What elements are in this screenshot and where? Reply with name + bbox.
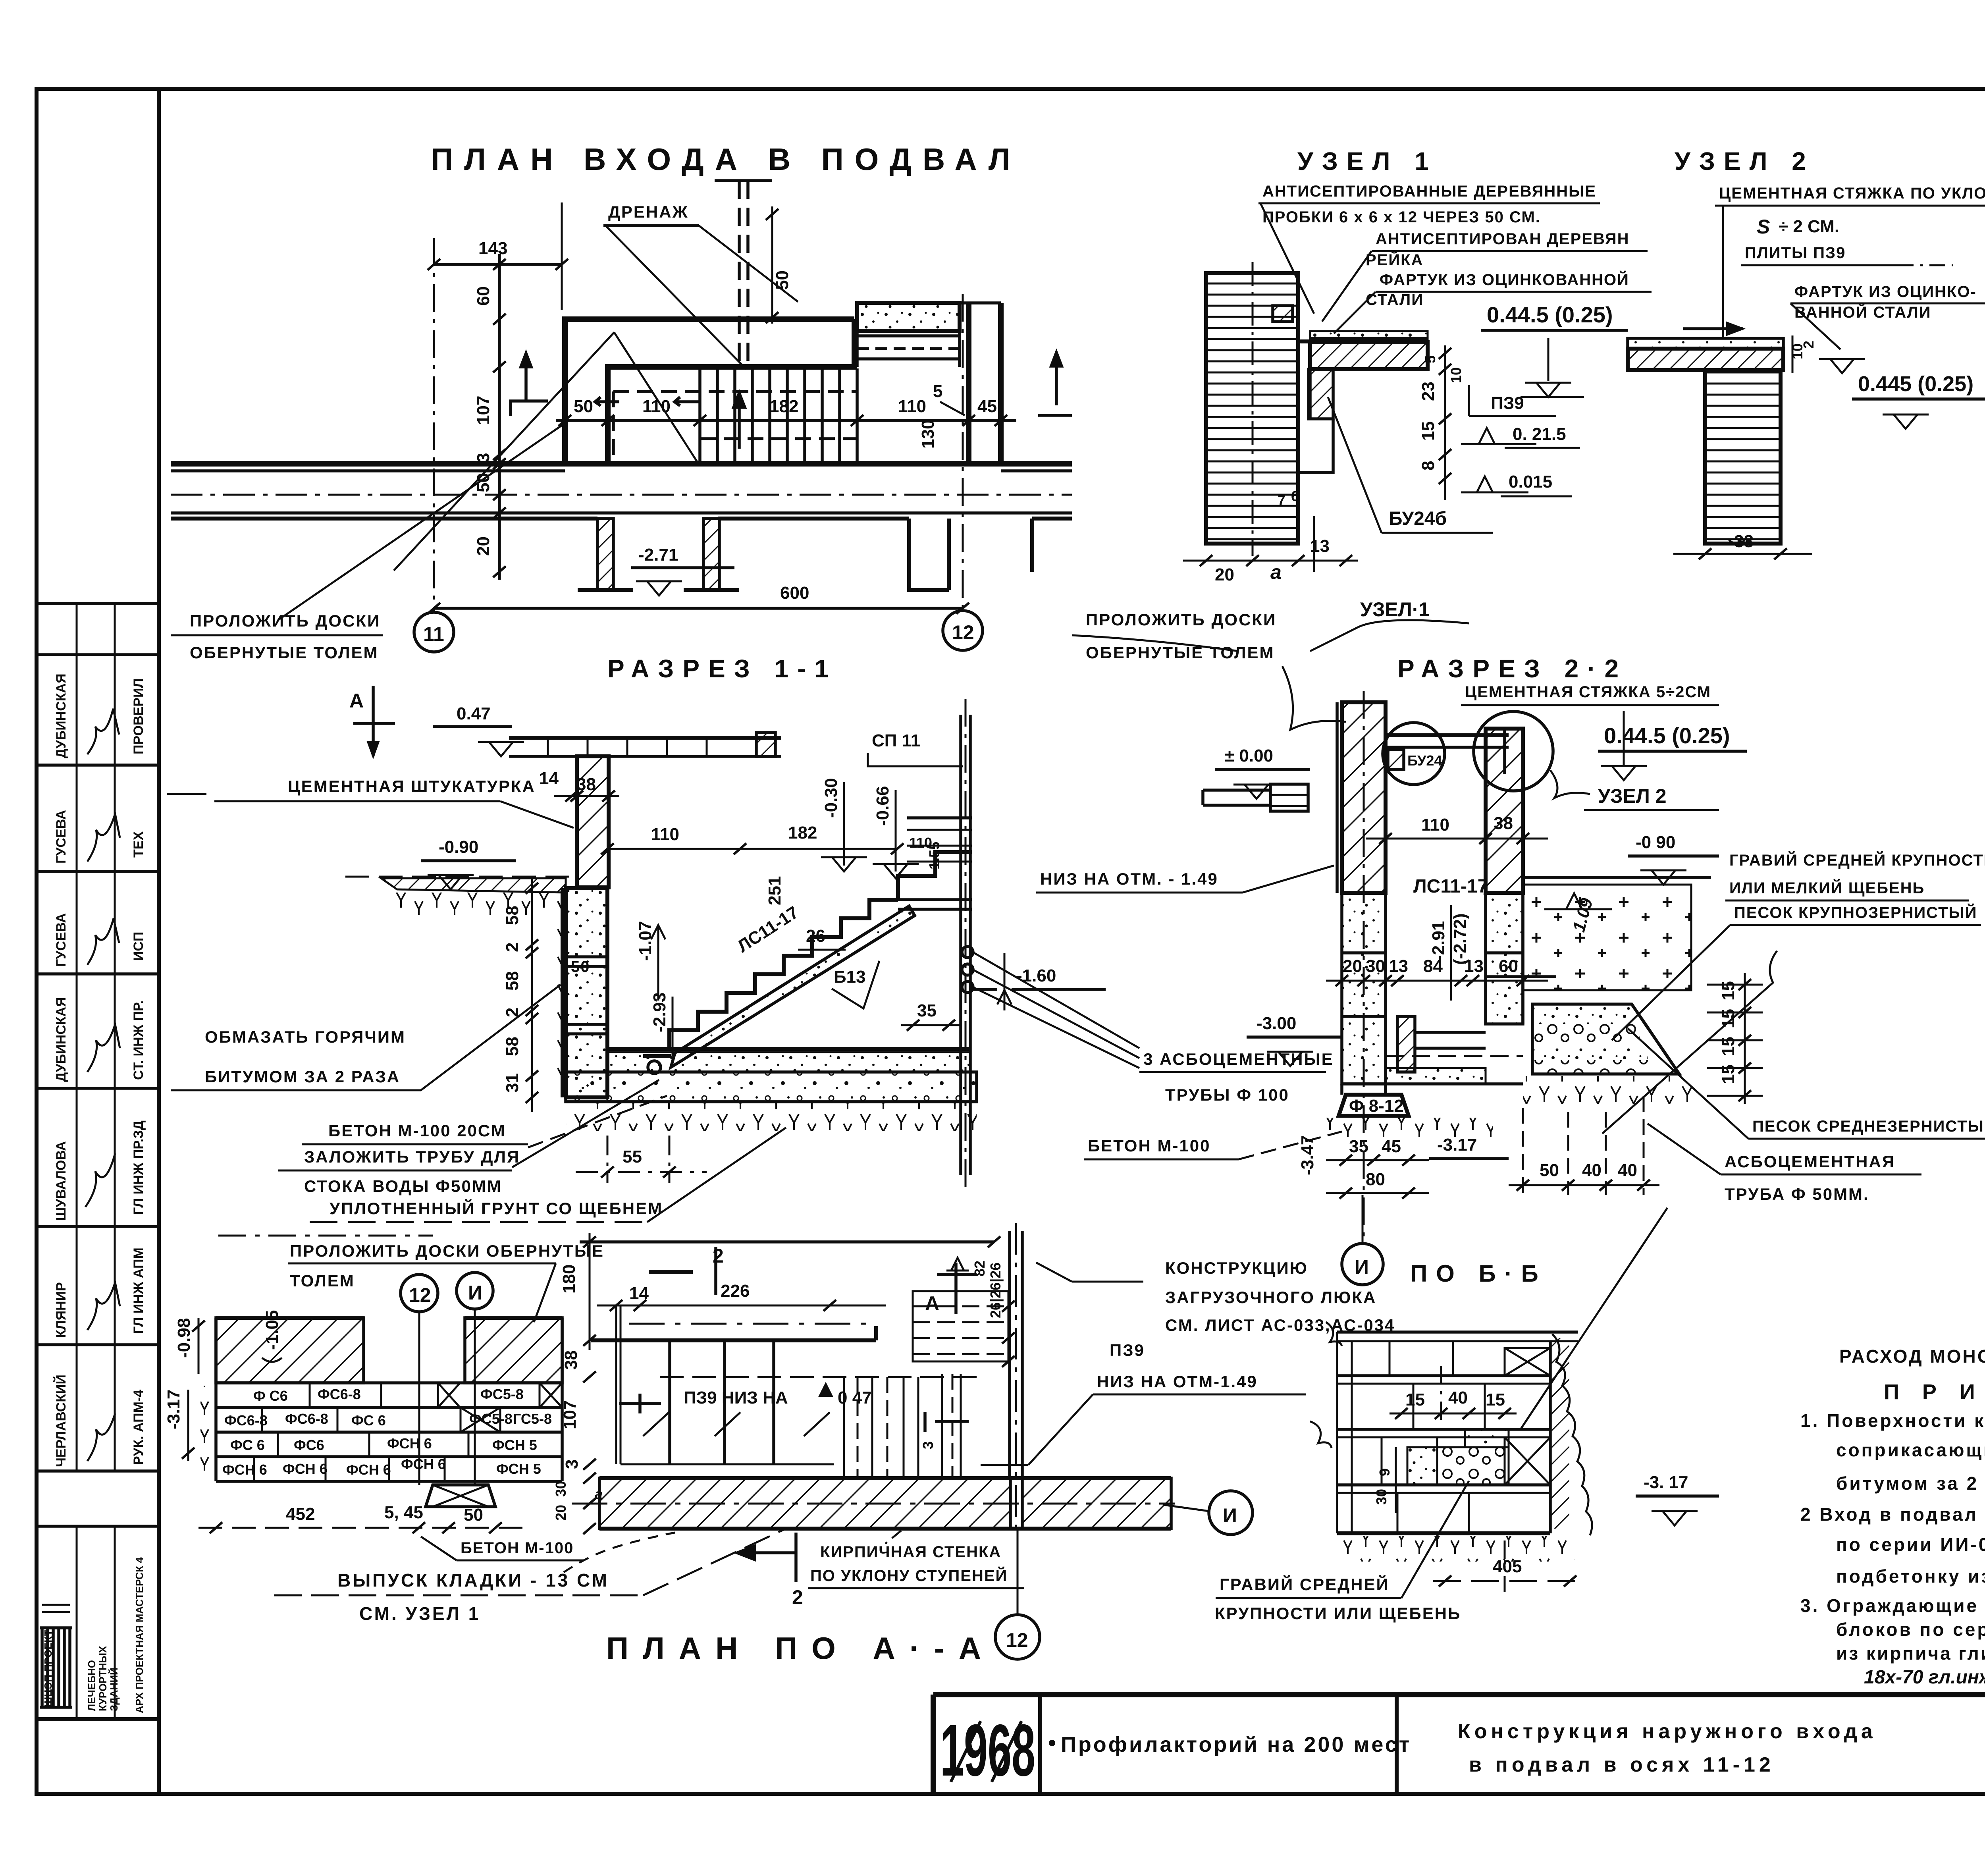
drain pipe xyxy=(715,181,792,365)
svg-text:ПЗ9: ПЗ9 xyxy=(1110,1341,1145,1359)
svg-text:АСБОЦЕМЕНТНАЯ: АСБОЦЕМЕНТНАЯ xyxy=(1725,1152,1895,1171)
svg-text:5: 5 xyxy=(1422,355,1438,363)
sand coarse label xyxy=(1602,903,1981,1134)
uzel-1 callout xyxy=(1072,598,1469,730)
note lay boards left xyxy=(171,611,383,662)
svg-text:35: 35 xyxy=(917,1001,937,1020)
svg-text:130: 130 xyxy=(918,420,938,449)
svg-text:ПЗ9 НИЗ НА: ПЗ9 НИЗ НА xyxy=(684,1388,788,1407)
landing top right xyxy=(898,818,972,909)
axis line 12 xyxy=(943,294,983,650)
svg-text:3: 3 xyxy=(920,1441,936,1449)
svg-text:1. Поверхности кирпичных сте: 1. Поверхности кирпичных стен и бетонных… xyxy=(1800,1410,1985,1431)
left block wall xyxy=(552,888,607,1097)
stamp office block xyxy=(40,1557,145,1713)
svg-text:ЦЕМЕНТНАЯ СТЯЖКА ПО УКЛОНУ: ЦЕМЕНТНАЯ СТЯЖКА ПО УКЛОНУ xyxy=(1719,185,1985,202)
plan stairs xyxy=(595,368,858,464)
axis 12 wall planAA xyxy=(1010,1223,1022,1533)
svg-text:26: 26 xyxy=(806,926,825,946)
svg-text:110: 110 xyxy=(898,397,926,416)
svg-text:ФС 6: ФС 6 xyxy=(351,1412,386,1429)
pit middle 2-2 xyxy=(1342,1016,1523,1084)
axis circle I pobb xyxy=(1163,1491,1253,1535)
axis wall right of section 1-1 xyxy=(961,699,970,1191)
svg-text:ГЛ ИНЖ ПР.ЗД: ГЛ ИНЖ ПР.ЗД xyxy=(131,1120,146,1215)
poBB bottom ground xyxy=(1337,1536,1575,1562)
svg-text:ОБМАЗАТЬ ГОРЯЧИМ: ОБМАЗАТЬ ГОРЯЧИМ xyxy=(205,1028,406,1046)
axis I dashdot 2-2 xyxy=(1363,691,1365,1239)
svg-text:ПЕСОК КРУПНОЗЕРНИСТЫЙ: ПЕСОК КРУПНОЗЕРНИСТЫЙ xyxy=(1734,903,1977,922)
uzel 2 apron label xyxy=(1790,283,1985,349)
svg-text:38: 38 xyxy=(1494,814,1513,833)
svg-text:15: 15 xyxy=(1486,1390,1505,1409)
lintel BU24 xyxy=(1386,727,1509,774)
svg-text:ПРОБКИ 6 х 6 х 12 ЧЕРЕЗ 50 С: ПРОБКИ 6 х 6 х 12 ЧЕРЕЗ 50 СМ. xyxy=(1262,208,1541,226)
svg-text:-1.07: -1.07 xyxy=(636,921,655,961)
svg-text:45: 45 xyxy=(1382,1137,1401,1156)
svg-text:50: 50 xyxy=(1540,1161,1559,1180)
entrance slab bricks xyxy=(509,733,781,756)
svg-text:5: 5 xyxy=(933,382,942,401)
svg-text:58: 58 xyxy=(503,906,522,925)
plan horizontal dims 50 110 182 110 45 xyxy=(556,382,1016,449)
svg-text:ГЛ ИНЖ АПМ: ГЛ ИНЖ АПМ xyxy=(131,1247,146,1334)
svg-text:-2.93: -2.93 xyxy=(650,993,669,1032)
svg-text:13: 13 xyxy=(1464,956,1484,976)
svg-text:2: 2 xyxy=(1800,341,1817,349)
svg-text:ВЫПУСК КЛАДКИ - 13 СМ: ВЫПУСК КЛАДКИ - 13 СМ xyxy=(337,1570,609,1591)
svg-text:СТ. ИНЖ ПР.: СТ. ИНЖ ПР. xyxy=(131,1001,146,1080)
object name xyxy=(1049,1733,1411,1756)
svg-text:-0.90: -0.90 xyxy=(439,837,478,857)
uzel 1 notes xyxy=(1258,183,1652,334)
elevation X marks xyxy=(438,1383,562,1432)
elevation dims xyxy=(198,1503,584,1560)
P39 level label left xyxy=(1036,866,1334,893)
plaster label xyxy=(167,777,574,828)
dims 50 40 40 xyxy=(1509,1096,1659,1195)
poBB brick wall xyxy=(1337,1332,1550,1533)
svg-text:23: 23 xyxy=(1418,382,1438,401)
sand layers wedge xyxy=(1523,1004,1694,1104)
dims 14 38 xyxy=(539,769,619,802)
svg-text:40: 40 xyxy=(1618,1161,1637,1180)
svg-text:ЗАГРУЗОЧНОГО ЛЮКА: ЗАГРУЗОЧНОГО ЛЮКА xyxy=(1165,1288,1376,1307)
svg-text:7: 7 xyxy=(1278,492,1285,508)
svg-text:НИЗ НА ОТМ. - 1.49: НИЗ НА ОТМ. - 1.49 xyxy=(1040,870,1218,888)
level -2.93 xyxy=(650,993,673,1056)
stair steps section xyxy=(643,900,915,1074)
svg-text:ПРИМЕЧАНИЯ:: ПРИМЕЧАНИЯ: xyxy=(1884,1380,1985,1404)
svg-text:80: 80 xyxy=(1366,1170,1385,1189)
svg-text:ФАРТУК ИЗ ОЦИНКО-: ФАРТУК ИЗ ОЦИНКО- xyxy=(1794,283,1977,301)
svg-text:3: 3 xyxy=(474,453,493,463)
svg-text:КОНСТРУКЦИЮ: КОНСТРУКЦИЮ xyxy=(1165,1259,1308,1277)
svg-text:ПРОВЕРИЛ: ПРОВЕРИЛ xyxy=(131,679,146,754)
svg-text:-0.66: -0.66 xyxy=(873,786,892,826)
svg-text:10: 10 xyxy=(1448,367,1464,383)
svg-text:ГРАВИЙ СРЕДНЕЙ КРУПНОСТИ: ГРАВИЙ СРЕДНЕЙ КРУПНОСТИ xyxy=(1729,851,1985,869)
stair arrow up xyxy=(734,393,745,449)
svg-text:в подвал в осях 11-12: в подвал в осях 11-12 xyxy=(1469,1753,1775,1776)
svg-text:ГУСЕВА: ГУСЕВА xyxy=(54,810,69,864)
svg-text:60: 60 xyxy=(1499,956,1518,976)
elevation left levels xyxy=(164,1310,282,1461)
uzel 1 P39 label xyxy=(1469,385,1556,416)
stamp signatures xyxy=(85,709,120,1461)
dim 50 drain xyxy=(771,206,773,324)
svg-text:12: 12 xyxy=(952,621,974,644)
svg-text:ДУБИНСКАЯ: ДУБИНСКАЯ xyxy=(54,673,69,758)
poBB level -3.17 xyxy=(1636,1473,1719,1525)
level -0.90 right xyxy=(1523,833,1719,885)
compacted soil label xyxy=(310,1128,786,1222)
svg-text:18х-70 гл.инж.пр.: 18х-70 гл.инж.пр. xyxy=(1864,1667,1985,1688)
svg-text:9: 9 xyxy=(1376,1468,1393,1476)
svg-text:ПЛИТЫ ПЗ9: ПЛИТЫ ПЗ9 xyxy=(1745,244,1846,262)
svg-text:20: 20 xyxy=(1215,565,1234,584)
stamp grid xyxy=(37,603,159,1719)
svg-text:ФСН 6: ФСН 6 xyxy=(387,1435,432,1452)
drainage pipe label xyxy=(278,1080,659,1195)
stamp role texts xyxy=(131,679,146,1465)
svg-text:ФС5-8: ФС5-8 xyxy=(480,1386,524,1402)
level -2.71 xyxy=(631,545,734,596)
svg-text:0.445 (0.25): 0.445 (0.25) xyxy=(1858,372,1973,396)
drain label xyxy=(603,202,798,369)
svg-text:из кирпича глиняного обыкн: из кирпича глиняного обыкновенного М 75 … xyxy=(1836,1643,1985,1664)
svg-text:ПРОЛОЖИТЬ ДОСКИ: ПРОЛОЖИТЬ ДОСКИ xyxy=(1086,610,1276,629)
svg-text:55: 55 xyxy=(622,1147,642,1166)
svg-text:ДРЕНАЖ: ДРЕНАЖ xyxy=(608,202,689,221)
svg-text:180: 180 xyxy=(559,1265,579,1294)
svg-text:30: 30 xyxy=(553,1481,569,1497)
svg-text:ФСН 6: ФСН 6 xyxy=(346,1461,391,1478)
svg-text:0. 21.5: 0. 21.5 xyxy=(1513,424,1566,444)
uzel 2 slab xyxy=(1628,323,1783,370)
svg-text:ПРОЛОЖИТЬ ДОСКИ ОБЕРНУТЫЕ: ПРОЛОЖИТЬ ДОСКИ ОБЕРНУТЫЕ xyxy=(290,1242,604,1260)
svg-text:452: 452 xyxy=(286,1504,315,1524)
svg-text:30: 30 xyxy=(1366,956,1385,976)
dims 110 182 sec xyxy=(601,823,942,905)
svg-text:3 АСБОЦЕМЕНТНЫЕ: 3 АСБОЦЕМЕНТНЫЕ xyxy=(1143,1050,1334,1068)
poBB right ragged edge xyxy=(1550,1334,1592,1535)
P39 label mid xyxy=(981,1341,1306,1465)
note 3 xyxy=(1800,1595,1985,1664)
svg-text:ТОЛЕМ: ТОЛЕМ xyxy=(290,1271,355,1290)
uzel 1 level 0.21.5 xyxy=(1461,424,1580,448)
level 0.47 xyxy=(433,704,524,756)
svg-text:ФСН 6: ФСН 6 xyxy=(222,1461,267,1478)
svg-text:ОБЕРНУТЫЕ ТОЛЕМ: ОБЕРНУТЫЕ ТОЛЕМ xyxy=(1086,643,1275,662)
svg-text:РАСХОД МОНОЛИТНОГО БЕТОНА: РАСХОД МОНОЛИТНОГО БЕТОНА М-100 — 2,5 м3 xyxy=(1839,1344,1985,1367)
svg-text:АРХ ПРОЕКТНАЯ МАСТЕРСК 4: АРХ ПРОЕКТНАЯ МАСТЕРСК 4 xyxy=(133,1557,145,1713)
axis line 11 xyxy=(414,238,454,652)
dims 35 45 80 xyxy=(1298,1135,1509,1199)
label SP11 xyxy=(868,731,963,766)
footing F8-12 xyxy=(1326,1084,1493,1141)
dims 20 30 13 84 13 60 xyxy=(1326,956,1548,986)
elevation 0.44.5 sec2 xyxy=(1598,711,1747,780)
right dim stack 15s xyxy=(1707,973,1763,1104)
level -3.00 xyxy=(1247,1014,1342,1066)
elevation hatched top band xyxy=(216,1318,562,1383)
elevation block rows xyxy=(216,1318,562,1481)
svg-text:ТРУБЫ Ф 100: ТРУБЫ Ф 100 xyxy=(1165,1085,1289,1104)
svg-text:КУРОРТНЫХ: КУРОРТНЫХ xyxy=(97,1646,109,1711)
svg-text:ПО Б·Б: ПО Б·Б xyxy=(1410,1260,1547,1287)
plan outer wall xyxy=(565,319,857,464)
svg-text:2: 2 xyxy=(503,943,522,952)
svg-text:ТЕХ: ТЕХ xyxy=(131,831,146,858)
svg-text:182: 182 xyxy=(769,397,798,416)
svg-text:26|26|26: 26|26|26 xyxy=(987,1263,1004,1318)
section mark 2 bottom xyxy=(564,1533,803,1608)
asbestos tube label xyxy=(1521,1124,1921,1429)
planAA drawing xyxy=(591,1305,983,1464)
wall left 2-2 xyxy=(1337,702,1386,893)
wall hatch section xyxy=(577,756,609,887)
note 2 xyxy=(1800,1504,1985,1587)
poBB gravel pocket xyxy=(1407,1429,1509,1485)
svg-text:40: 40 xyxy=(1448,1388,1468,1407)
svg-text:СП 11: СП 11 xyxy=(872,731,920,750)
approval line xyxy=(1864,1664,1985,1688)
poBB X blocks xyxy=(1505,1348,1550,1485)
logo 1968 xyxy=(940,1710,1035,1791)
svg-text:ФС5-8: ФС5-8 xyxy=(469,1411,513,1427)
ground wedge left xyxy=(381,878,566,916)
concrete M100 label sec2 xyxy=(1084,1132,1342,1159)
svg-text:И: И xyxy=(1355,1256,1369,1278)
svg-text:-3.17: -3.17 xyxy=(1437,1135,1477,1155)
section mark 1 left xyxy=(511,353,548,416)
svg-text:БУ24: БУ24 xyxy=(1407,752,1442,769)
sand mid label xyxy=(1628,1028,1985,1139)
svg-text:ЗДАНИЙ: ЗДАНИЙ xyxy=(108,1668,120,1711)
svg-text:1.55: 1.55 xyxy=(926,842,942,870)
svg-text:ФСН 6: ФСН 6 xyxy=(401,1456,446,1472)
uzel 1 bottom dims xyxy=(1183,488,1358,584)
svg-text:РАЗРЕЗ 2·2: РАЗРЕЗ 2·2 xyxy=(1397,654,1627,683)
svg-text:13: 13 xyxy=(1310,536,1330,556)
svg-text:S: S xyxy=(1757,216,1770,238)
svg-text:ФСН 5: ФСН 5 xyxy=(496,1461,541,1477)
level -1.60 xyxy=(972,953,1106,1010)
floor slab xyxy=(566,1049,977,1131)
svg-text:-2.91: -2.91 xyxy=(1429,921,1448,961)
svg-text:60: 60 xyxy=(474,286,493,306)
svg-text:-3. 17: -3. 17 xyxy=(1644,1473,1688,1492)
svg-text:БЕТОН М-100 20СМ: БЕТОН М-100 20СМ xyxy=(328,1121,506,1140)
pier 2 xyxy=(684,519,739,590)
svg-text:КИРПИЧНАЯ СТЕНКА: КИРПИЧНАЯ СТЕНКА xyxy=(820,1543,1001,1561)
svg-text:-2.71: -2.71 xyxy=(638,545,678,565)
uzel 1 level 0.015 xyxy=(1461,472,1572,496)
svg-text:ТРУБА Ф 50ММ.: ТРУБА Ф 50ММ. xyxy=(1725,1185,1869,1203)
svg-text:А: А xyxy=(925,1292,939,1315)
plan left vertical dims xyxy=(474,254,506,580)
svg-text:УЗЕЛ 1: УЗЕЛ 1 xyxy=(1297,147,1438,175)
uzel 1 slab xyxy=(1298,331,1428,472)
svg-text:ВАННОЙ СТАЛИ: ВАННОЙ СТАЛИ xyxy=(1794,303,1931,321)
svg-text:Б13: Б13 xyxy=(834,967,866,987)
svg-text:УЗЕЛ·1: УЗЕЛ·1 xyxy=(1360,598,1430,621)
axis circle 12 bottom xyxy=(995,1529,1040,1659)
svg-text:8: 8 xyxy=(1418,461,1438,470)
svg-text:ОБЕРНУТЫЕ ТОЛЕМ: ОБЕРНУТЫЕ ТОЛЕМ xyxy=(190,643,379,662)
svg-text:ПЛАН ВХОДА В ПОДВАЛ: ПЛАН ВХОДА В ПОДВАЛ xyxy=(431,142,1021,177)
planAA left dims xyxy=(553,1350,603,1534)
svg-text:ФС 6: ФС 6 xyxy=(230,1437,265,1453)
callout circle 2 xyxy=(1474,711,1553,791)
uzel 2 small dims xyxy=(1789,335,1865,373)
svg-text:СМ. УЗЕЛ 1: СМ. УЗЕЛ 1 xyxy=(359,1603,480,1624)
svg-text:РАЗРЕЗ 1-1: РАЗРЕЗ 1-1 xyxy=(607,654,837,683)
svg-text:ФАРТУК ИЗ ОЦИНКОВАННОЙ: ФАРТУК ИЗ ОЦИНКОВАННОЙ xyxy=(1380,270,1629,289)
svg-text:подбетонку из бетона М-100: подбетонку из бетона М-100: xyxy=(1836,1566,1985,1587)
hatch door label xyxy=(1036,1259,1395,1334)
svg-text:ГС5-8: ГС5-8 xyxy=(513,1411,552,1427)
svg-text:251: 251 xyxy=(765,876,784,905)
concrete label xyxy=(302,1096,667,1147)
note boards planAA xyxy=(218,1236,604,1322)
svg-text:ИЛИ МЕЛКИЙ ЩЕБЕНЬ: ИЛИ МЕЛКИЙ ЩЕБЕНЬ xyxy=(1729,879,1925,897)
uzel 1 elevation 0.44.5 xyxy=(1481,302,1628,397)
svg-text:ИСП: ИСП xyxy=(131,932,146,961)
svg-text:15: 15 xyxy=(1418,421,1438,441)
gravel label right xyxy=(1725,851,1985,900)
axis circle I planAA xyxy=(457,1273,493,1485)
leader diagonals xyxy=(278,332,698,620)
section mark A bottom xyxy=(925,1263,977,1315)
svg-text:Ф 8-12: Ф 8-12 xyxy=(1349,1096,1404,1116)
plan bottom dim line xyxy=(428,603,969,614)
svg-text:ФС6: ФС6 xyxy=(294,1437,324,1453)
uzel 2 callout label xyxy=(1550,770,1719,810)
svg-text:АНТИСЕПТИРОВАН ДЕРЕВЯН: АНТИСЕПТИРОВАН ДЕРЕВЯН xyxy=(1376,230,1630,248)
section mark 1 right xyxy=(1038,353,1072,415)
svg-text:АНТИСЕПТИРОВАННЫЕ ДЕРЕВЯННЫЕ: АНТИСЕПТИРОВАННЫЕ ДЕРЕВЯННЫЕ xyxy=(1262,183,1596,200)
svg-text:50: 50 xyxy=(773,270,792,290)
svg-text:0.44.5 (0.25): 0.44.5 (0.25) xyxy=(1487,302,1613,327)
svg-text:ПРОЛОЖИТЬ ДОСКИ: ПРОЛОЖИТЬ ДОСКИ xyxy=(190,611,380,630)
svg-text:И: И xyxy=(1223,1504,1237,1527)
svg-text:ПЗ9: ПЗ9 xyxy=(1491,393,1524,413)
3 asbestos tubes label xyxy=(1139,1050,1334,1104)
svg-text:Конструкция наружного вход: Конструкция наружного входа xyxy=(1458,1720,1877,1743)
svg-text:40: 40 xyxy=(1582,1161,1601,1180)
svg-text:ПЛАН ПО А·-А: ПЛАН ПО А·-А xyxy=(606,1631,995,1666)
svg-text:ФС6-8: ФС6-8 xyxy=(224,1412,268,1429)
brick wall band plan xyxy=(572,1478,1175,1529)
svg-text:УПЛОТНЕННЫЙ ГРУНТ СО ЩЕБНЕМ: УПЛОТНЕННЫЙ ГРУНТ СО ЩЕБНЕМ xyxy=(330,1199,663,1218)
label LS11-17 xyxy=(734,902,961,1031)
callout circle 1 xyxy=(1383,723,1445,785)
svg-text:± 0.00: ± 0.00 xyxy=(1225,746,1273,765)
svg-text:БУ24б: БУ24б xyxy=(1389,508,1447,529)
svg-text:А: А xyxy=(349,690,364,712)
uzel 1 BU24 label xyxy=(1328,397,1493,533)
svg-text:405: 405 xyxy=(1493,1557,1522,1576)
svg-text:ШУВАЛОВА: ШУВАЛОВА xyxy=(54,1141,69,1221)
level -0.90 left xyxy=(345,837,577,889)
uzel 2 wall xyxy=(1705,370,1781,544)
svg-text:ПЕСОК СРЕДНЕЗЕРНИСТЫЙ: ПЕСОК СРЕДНЕЗЕРНИСТЫЙ xyxy=(1752,1117,1985,1135)
svg-text:0.015: 0.015 xyxy=(1509,472,1552,492)
uzel 2 notes xyxy=(1715,185,1985,338)
poBB small dims xyxy=(1373,1447,1396,1513)
svg-text:БИТУМОМ ЗА 2 РАЗА: БИТУМОМ ЗА 2 РАЗА xyxy=(205,1067,400,1086)
svg-text:ПО УКЛОНУ СТУПЕНЕЙ: ПО УКЛОНУ СТУПЕНЕЙ xyxy=(810,1566,1008,1585)
wall right 2-2 xyxy=(1486,729,1523,893)
svg-text:ЦЕМЕНТНАЯ СТЯЖКА 5÷2СМ: ЦЕМЕНТНАЯ СТЯЖКА 5÷2СМ xyxy=(1465,683,1711,701)
svg-text:14: 14 xyxy=(539,769,559,788)
svg-text:38: 38 xyxy=(576,775,596,794)
svg-text:ГУСЕВА: ГУСЕВА xyxy=(54,913,69,967)
axis circle 12 planAA xyxy=(401,1274,438,1485)
svg-text:35: 35 xyxy=(1349,1137,1368,1156)
levels -0.30 -0.66 xyxy=(821,778,919,878)
svg-text:12: 12 xyxy=(409,1284,431,1306)
svg-text:a: a xyxy=(1270,561,1282,583)
dims 110 38 xyxy=(1366,814,1548,844)
svg-text:РЕЙКА: РЕЙКА xyxy=(1366,251,1423,269)
svg-text:ЛЕЧЕБНО: ЛЕЧЕБНО xyxy=(86,1660,98,1711)
svg-text:ЛС11-17: ЛС11-17 xyxy=(1413,876,1488,897)
svg-text:÷ 2 СМ.: ÷ 2 СМ. xyxy=(1779,217,1839,236)
svg-text:2: 2 xyxy=(792,1586,803,1608)
svg-text:12: 12 xyxy=(1006,1629,1028,1651)
uzel 2 elevation 0.445 xyxy=(1852,372,1985,429)
svg-text:20: 20 xyxy=(1343,956,1362,976)
svg-text:-1.05: -1.05 xyxy=(262,1310,282,1350)
svg-text:БЕТОН М-100: БЕТОН М-100 xyxy=(1088,1136,1211,1155)
masonry note xyxy=(274,1529,786,1624)
svg-text:-3.17: -3.17 xyxy=(164,1390,183,1429)
poBB gravel label xyxy=(1215,1481,1469,1623)
elevation ground marks xyxy=(200,1386,216,1481)
svg-text:2: 2 xyxy=(713,1245,724,1267)
svg-text:82: 82 xyxy=(971,1261,988,1276)
svg-text:0.47: 0.47 xyxy=(457,704,491,723)
note 1 xyxy=(1800,1410,1985,1494)
svg-text:И: И xyxy=(468,1282,482,1304)
svg-text:3. Ограждающие входы стены: 3. Ограждающие входы стены выполняются и… xyxy=(1800,1595,1985,1616)
svg-text:БЕТОН М-100: БЕТОН М-100 xyxy=(461,1539,574,1557)
svg-text:11: 11 xyxy=(423,623,444,645)
svg-text:110: 110 xyxy=(1421,815,1449,835)
svg-text:СТОКА ВОДЫ Ф50ММ: СТОКА ВОДЫ Ф50ММ xyxy=(304,1177,502,1195)
svg-text:Ф С6: Ф С6 xyxy=(253,1388,288,1404)
poBB dims 15 40 15 xyxy=(1389,1366,1517,1421)
uzel 1 wall xyxy=(1206,262,1310,556)
svg-text:50: 50 xyxy=(571,958,590,976)
svg-text:600: 600 xyxy=(780,583,809,603)
svg-text:КРУПНОСТИ ИЛИ ЩЕБЕНЬ: КРУПНОСТИ ИЛИ ЩЕБЕНЬ xyxy=(1215,1604,1461,1623)
svg-text:45: 45 xyxy=(977,397,997,416)
svg-text:143: 143 xyxy=(478,239,507,258)
svg-text:50: 50 xyxy=(474,473,493,492)
svg-text:50: 50 xyxy=(464,1505,483,1525)
svg-text:2 Вход в подвал выполняется: 2 Вход в подвал выполняется из наборных … xyxy=(1800,1504,1985,1525)
svg-text:ДУБИНСКАЯ: ДУБИНСКАЯ xyxy=(54,997,69,1082)
poBB top lines xyxy=(1310,1322,1578,1448)
svg-text:УЗЕЛ 2: УЗЕЛ 2 xyxy=(1675,147,1815,175)
svg-text:5, 45: 5, 45 xyxy=(384,1503,423,1522)
svg-text:31: 31 xyxy=(503,1073,522,1093)
svg-text:-0.30: -0.30 xyxy=(821,778,841,818)
